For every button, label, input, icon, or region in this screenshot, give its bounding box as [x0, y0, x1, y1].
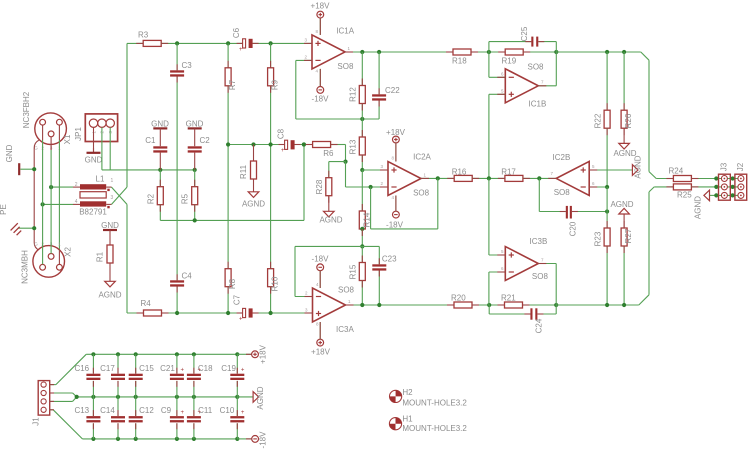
wire IC1A output row: [345, 51, 453, 53]
node mid rail x135: [134, 395, 138, 399]
svg-text:SO8: SO8: [337, 62, 354, 71]
svg-text:R21: R21: [501, 294, 516, 303]
connector J1: [32, 381, 50, 426]
resistor R14: [359, 170, 371, 229]
ground GND above C2: [186, 120, 204, 147]
capacitor C18: [187, 354, 213, 397]
svg-text:C7: C7: [233, 294, 242, 305]
ground GND above R1: [101, 221, 119, 245]
svg-text:C22: C22: [385, 86, 400, 95]
wire top row left vertical from R3 to L1 crossover: [126, 43, 128, 187]
node J3 pin1 left: [714, 176, 718, 180]
node top rail x176: [175, 352, 179, 356]
svg-text:GND: GND: [151, 120, 169, 129]
node R8 bottom: [226, 311, 230, 315]
svg-text:NC3FBH2: NC3FBH2: [22, 91, 31, 128]
svg-text:R7: R7: [228, 79, 237, 90]
capacitor C14: [100, 397, 125, 439]
svg-text:MOUNT-HOLE3.2: MOUNT-HOLE3.2: [402, 424, 467, 433]
svg-text:C14: C14: [100, 406, 115, 415]
node R23 bottom: [605, 303, 609, 307]
node X1 pin2 tap: [41, 202, 45, 206]
node bottom rail x237: [235, 437, 239, 441]
resistor R2: [146, 170, 163, 205]
node IC2B - / R22: [605, 185, 609, 189]
resistor R13: [349, 119, 366, 170]
node J1 mid join: [75, 395, 79, 399]
node shell GND: [32, 167, 36, 171]
svg-text:R25: R25: [677, 191, 692, 200]
supply +18V IC3A: [311, 322, 331, 356]
wire IC2B + to AGND: [589, 169, 632, 171]
pin stubs capacitors: [177, 42, 578, 314]
svg-text:C3: C3: [182, 61, 193, 70]
node R12 top: [360, 50, 364, 54]
svg-text:4: 4: [75, 199, 78, 205]
svg-text:L1: L1: [96, 175, 105, 184]
svg-text:R26: R26: [624, 113, 633, 128]
wire IC3B + input: [489, 178, 505, 255]
capacitor C11: [187, 397, 213, 439]
wire X1/X2 shell line: [34, 140, 39, 250]
svg-text:AGND: AGND: [242, 200, 265, 209]
node top rail x93: [91, 352, 95, 356]
svg-text:C25: C25: [520, 26, 529, 41]
wire IC3B - input: [489, 272, 505, 305]
wire R3 to C6: [161, 42, 242, 44]
wire IC2A feedback loop: [371, 178, 438, 229]
wire J1 pin3 to mid rail: [50, 397, 77, 402]
node R26 top: [622, 50, 626, 54]
wire IC2A - input row: [346, 186, 389, 188]
node J2 pin2 left: [731, 185, 735, 189]
svg-text:+18V: +18V: [386, 128, 406, 137]
svg-text:-18V: -18V: [259, 431, 268, 449]
node mid rail x93: [91, 395, 95, 399]
ground AGND to J3 pin3: [694, 190, 717, 219]
svg-text:SO8: SO8: [554, 188, 571, 197]
wire C6 to IC1A+: [253, 42, 312, 44]
node mid rail x193: [192, 395, 196, 399]
earth PE symbol: [0, 204, 34, 235]
capacitor C13: [74, 397, 100, 439]
node J2 pin1 left: [731, 176, 735, 180]
svg-text:-18V: -18V: [386, 220, 404, 229]
svg-text:C16: C16: [74, 364, 89, 373]
wire top row: [127, 42, 143, 44]
resistor R4: [141, 299, 162, 316]
wire R25 to J3 pin2: [691, 186, 741, 188]
svg-text:SO8: SO8: [528, 63, 545, 72]
node R15 bottom: [360, 303, 364, 307]
svg-text:R3: R3: [138, 31, 149, 40]
svg-text:H1: H1: [402, 415, 413, 424]
wire R24 to J3 pin1: [691, 178, 741, 180]
svg-text:GND: GND: [5, 144, 14, 162]
node C22 top: [377, 50, 381, 54]
svg-text:IC1A: IC1A: [336, 27, 354, 36]
node C23 bottom: [377, 303, 381, 307]
capacitor C15: [129, 354, 155, 397]
node IC3B out bottom: [554, 303, 558, 307]
pin stubs op-amps: [304, 18, 597, 339]
op-amp IC3A: [305, 282, 355, 334]
capacitor C8: [276, 128, 294, 154]
resistor R28: [315, 162, 332, 196]
svg-text:AGND: AGND: [256, 386, 265, 409]
svg-text:X1: X1: [63, 134, 72, 144]
connector J2: [735, 162, 747, 200]
node R9 top: [269, 41, 273, 45]
svg-text:+: +: [239, 316, 243, 322]
svg-text:R13: R13: [349, 139, 358, 154]
node bottom rail x193: [192, 437, 196, 441]
resistor R25: [654, 184, 692, 200]
svg-text:+18V: +18V: [311, 1, 331, 10]
wire output row to right corner: [556, 51, 641, 53]
supply -18V bank: [237, 431, 267, 449]
node IC3B fb left: [487, 303, 491, 307]
capacitor C16: [74, 354, 100, 397]
supply +18V IC1A: [311, 1, 331, 35]
wire C8 to R6: [295, 144, 313, 146]
capacitor C19: [221, 354, 245, 397]
capacitor C9: [161, 397, 185, 439]
node J3 pin3 left: [714, 193, 718, 197]
wire bank bottom rail: [82, 438, 237, 440]
wire JP1 pin3 down: [109, 127, 111, 169]
svg-text:IC1B: IC1B: [529, 100, 547, 109]
node top rail x237: [235, 352, 239, 356]
capacitor C10: [220, 397, 245, 439]
wire R7 to node: [227, 86, 229, 145]
node R7 top: [226, 41, 230, 45]
svg-text:G: G: [34, 242, 38, 247]
wire R20 to R21: [472, 304, 505, 306]
svg-text:+: +: [281, 148, 285, 154]
node bottom rail x176: [175, 437, 179, 441]
svg-text:3: 3: [111, 195, 114, 201]
node bottom rail x93: [91, 437, 95, 441]
svg-text:C21: C21: [160, 364, 175, 373]
svg-text:R18: R18: [452, 57, 467, 66]
resistor R5: [181, 170, 198, 205]
svg-text:R2: R2: [146, 193, 155, 204]
ground AGND below R1: [98, 263, 121, 300]
svg-text:B82791: B82791: [79, 208, 107, 217]
ground GND below JP1 pin1: [85, 127, 103, 164]
svg-text:C17: C17: [100, 364, 115, 373]
svg-text:C20: C20: [568, 221, 577, 236]
resistor R8: [225, 269, 237, 313]
svg-text:R4: R4: [141, 299, 152, 308]
wire R4 row: [127, 312, 144, 314]
svg-text:C23: C23: [382, 255, 397, 264]
node row144 at R7R8 column: [226, 142, 230, 146]
supply -18V IC3A: [312, 255, 330, 288]
node R10 bottom: [269, 311, 273, 315]
resistor R18: [452, 49, 471, 66]
capacitor C1: [145, 136, 167, 170]
node mid rail x118: [116, 395, 120, 399]
svg-text:X2: X2: [64, 247, 73, 257]
wire AGND row3: [716, 194, 741, 196]
resistor R22: [593, 52, 610, 128]
pin stubs bank caps: [50, 354, 252, 439]
resistor R1: [96, 245, 114, 263]
capacitor C3: [170, 43, 192, 76]
resistor R11: [239, 145, 257, 180]
wire L1 lower output down to R4 row: [126, 204, 128, 313]
wire R22 bottom to IC2B- node: [606, 128, 608, 187]
capacitor C25 branch: [489, 26, 556, 52]
resistor R3: [138, 31, 161, 47]
node R2 top: [158, 168, 162, 172]
supply -18V IC2A: [386, 196, 404, 230]
resistor R26: [621, 52, 633, 128]
wire R14 bottom to R15 top: [361, 229, 363, 247]
node R27 bottom: [622, 303, 626, 307]
node top rail x193: [192, 352, 196, 356]
supply +18V IC2A: [386, 128, 406, 162]
wire node to R8: [227, 145, 229, 269]
supply +18V bank: [237, 344, 267, 364]
resistor R15: [349, 246, 366, 305]
svg-text:+: +: [239, 47, 243, 53]
wire junction down to IC2A- row: [345, 162, 347, 187]
svg-text:R11: R11: [239, 164, 248, 179]
svg-text:R12: R12: [349, 87, 358, 102]
wire R17 to IC2B: [523, 177, 556, 179]
resistor R6: [313, 142, 334, 158]
svg-text:AGND: AGND: [98, 291, 121, 300]
wire bank mid rail: [77, 396, 238, 398]
svg-text:GND: GND: [85, 155, 103, 164]
wire J1 pin2 to mid rail: [50, 393, 77, 397]
svg-text:J1: J1: [32, 417, 41, 426]
wire corner diagonal to R24 net: [641, 52, 656, 179]
resistor R7: [225, 43, 237, 90]
connector J3: [719, 162, 731, 200]
transformer L1: [73, 175, 114, 217]
resistor R20: [451, 294, 472, 309]
op-amp IC1B: [501, 63, 546, 109]
node IC1B feedback left: [487, 50, 491, 54]
ground AGND below R28: [319, 196, 342, 225]
node R5 bottom: [193, 218, 197, 222]
mount hole H2: [390, 388, 468, 408]
node shell PE: [32, 226, 36, 230]
svg-text:R15: R15: [349, 264, 358, 279]
capacitor C12: [129, 397, 155, 439]
pin stubs resistors: [136, 43, 698, 313]
wire bottom row to right riser: [556, 304, 639, 306]
resistor R19: [502, 49, 524, 66]
wire IC2A + input row: [362, 169, 388, 171]
wire R2/R5 bottoms rail: [160, 145, 304, 221]
ground AGND right of IC2B+: [632, 155, 642, 178]
node mid bias: [487, 176, 491, 180]
svg-text:C4: C4: [182, 272, 193, 281]
node R9R10 mid: [269, 142, 273, 146]
wire R9 to R10: [270, 86, 272, 269]
svg-text:GND: GND: [101, 221, 119, 230]
node R15 top: [360, 244, 364, 248]
svg-text:R19: R19: [502, 57, 517, 66]
node IC1B output top: [554, 50, 558, 54]
svg-text:C2: C2: [200, 136, 211, 145]
node C4 bottom: [175, 311, 179, 315]
node mid rail x176: [175, 395, 179, 399]
svg-text:R10: R10: [270, 276, 279, 291]
svg-text:R20: R20: [451, 294, 466, 303]
svg-text:IC3A: IC3A: [336, 325, 354, 334]
svg-text:C15: C15: [139, 364, 154, 373]
svg-text:C6: C6: [232, 27, 241, 38]
wire R7R8 node to C8 row: [228, 144, 285, 146]
svg-text:MOUNT-HOLE3.2: MOUNT-HOLE3.2: [402, 399, 467, 408]
supply -18V IC1A: [312, 69, 330, 104]
svg-text:IC2B: IC2B: [553, 153, 571, 162]
ground GND above C1: [151, 120, 169, 147]
svg-text:NC3MBH: NC3MBH: [21, 250, 30, 284]
op-amp IC2A: [380, 153, 431, 201]
node R11 top: [251, 142, 255, 146]
svg-text:AGND: AGND: [634, 155, 643, 178]
ground AGND bank: [237, 386, 265, 409]
svg-text:+: +: [241, 410, 245, 416]
node C20 tap: [537, 176, 541, 180]
node R22 top: [605, 50, 609, 54]
svg-text:SO8: SO8: [532, 272, 549, 281]
node C8-R6 to lower rail: [302, 142, 306, 146]
svg-text:GND: GND: [186, 120, 204, 129]
svg-text:SO8: SO8: [413, 189, 430, 198]
svg-text:R16: R16: [452, 168, 467, 177]
svg-text:AGND: AGND: [610, 200, 633, 209]
connector JP1: [74, 114, 118, 142]
svg-text:+18V: +18V: [311, 347, 331, 356]
wire C3 to C4: [176, 77, 178, 281]
ground AGND above R27: [610, 200, 633, 228]
capacitor C20 branch: [539, 178, 607, 236]
capacitor C23: [372, 246, 397, 305]
connector X2 (NC3MBH): [21, 242, 73, 284]
resistor R27: [621, 228, 633, 305]
wire J1 pin4 to bottom rail: [50, 410, 83, 439]
op-amp IC2B (mirrored): [550, 153, 595, 197]
svg-text:C1: C1: [145, 136, 156, 145]
resistor R21: [501, 294, 523, 309]
svg-text:+: +: [241, 368, 245, 374]
svg-text:R24: R24: [669, 167, 684, 176]
node bottom rail x118: [116, 437, 120, 441]
svg-text:C12: C12: [139, 406, 154, 415]
resistor R24: [656, 167, 691, 182]
wire R16 to R17: [472, 177, 505, 179]
node C20 right: [605, 209, 609, 213]
node IC2A feedback tap: [436, 176, 440, 180]
wire IC2B - input: [589, 186, 607, 188]
wire R19 right to node: [523, 51, 556, 53]
svg-text:+: +: [198, 368, 202, 374]
svg-text:2: 2: [75, 182, 78, 188]
svg-text:C13: C13: [74, 406, 89, 415]
svg-text:IC2A: IC2A: [413, 153, 431, 162]
node X1 pin3 tap: [49, 185, 53, 189]
svg-text:R14: R14: [362, 212, 371, 227]
wire IC1B output: [538, 85, 556, 87]
svg-text:R23: R23: [593, 231, 602, 246]
svg-text:R6: R6: [323, 149, 334, 158]
wire L1 crossover: [112, 187, 128, 204]
resistor R23: [593, 187, 610, 305]
wire JP1 pin2 down: [102, 127, 195, 169]
node C8R6 lower tap: [302, 142, 306, 146]
svg-text:H2: H2: [402, 388, 413, 397]
node top rail x118: [116, 352, 120, 356]
wire X1 pin lines down: [43, 125, 60, 251]
node R14 bottom: [360, 227, 364, 231]
svg-text:R17: R17: [501, 168, 516, 177]
capacitor C17: [100, 354, 125, 397]
node J3 pin2 left: [714, 185, 718, 189]
svg-text:AGND: AGND: [319, 216, 342, 225]
wire R6 right corner down: [331, 145, 346, 162]
wire R21 right: [523, 304, 557, 306]
capacitor C4: [170, 272, 192, 314]
svg-text:+: +: [198, 410, 202, 416]
svg-text:PE: PE: [0, 204, 8, 215]
node mid rail x237: [235, 395, 239, 399]
resistor R17: [501, 168, 523, 182]
capacitor C2: [188, 136, 211, 170]
svg-text:R5: R5: [181, 193, 190, 204]
wire R4 to C7: [162, 312, 243, 314]
svg-text:C8: C8: [276, 128, 285, 139]
svg-text:1: 1: [111, 178, 114, 184]
svg-text:+18V: +18V: [259, 344, 268, 364]
ground AGND below R26: [613, 128, 636, 158]
capacitor C24 branch: [489, 305, 556, 333]
svg-text:JP1: JP1: [74, 127, 83, 141]
resistor R12: [349, 52, 366, 119]
svg-text:-18V: -18V: [312, 95, 330, 104]
ground GND left of X1: [5, 144, 34, 175]
svg-text:+: +: [181, 368, 185, 374]
wire bank top rail: [86, 353, 237, 355]
node IC2A + tap: [360, 168, 364, 172]
wire right riser to R25: [639, 187, 654, 305]
svg-text:C10: C10: [220, 406, 235, 415]
svg-text:R27: R27: [624, 228, 633, 243]
wire IC1B - input: [488, 52, 490, 77]
svg-text:C24: C24: [535, 318, 544, 333]
capacitor C6: [232, 27, 252, 52]
wire IC3B output: [538, 264, 556, 306]
svg-text:+: +: [181, 410, 185, 416]
capacitor C7: [233, 294, 253, 322]
wire IC2A output row: [421, 177, 454, 179]
svg-text:R1: R1: [96, 251, 105, 262]
wire IC1B + input: [489, 93, 505, 95]
wire X1 pin3 to L1.2: [51, 186, 73, 188]
svg-text:R8: R8: [228, 278, 237, 289]
op-amp IC1A: [304, 27, 354, 74]
svg-text:-18V: -18V: [312, 255, 330, 264]
svg-text:C9: C9: [161, 406, 172, 415]
resistor R16: [452, 168, 473, 182]
